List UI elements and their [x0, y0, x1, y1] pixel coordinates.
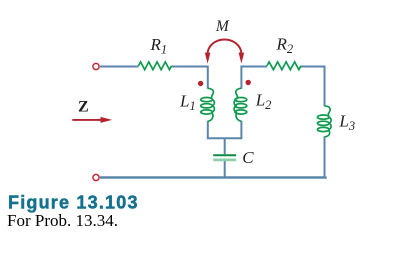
svg-text:Z: Z [78, 99, 89, 116]
wire R1 to L1 top corner, down to L1 coil [172, 67, 208, 89]
terminal top-left [93, 63, 99, 69]
inductor L2 coil [234, 88, 247, 121]
dot L1 (coupling polarity) [198, 81, 203, 86]
wire capacitor bottom plate to bottom rail [224, 161, 226, 178]
terminal bottom-left [93, 174, 99, 180]
capacitor C top plate [213, 154, 236, 156]
wire L1 bottom to junction bar [207, 121, 209, 138]
wire L2 top corner to R2 [241, 67, 267, 89]
svg-text:For Prob. 13.34.: For Prob. 13.34. [7, 211, 118, 230]
wire L2 bottom to junction bar [240, 121, 242, 138]
resistor R2 [267, 62, 301, 70]
junction bar under L1 L2 [207, 137, 243, 139]
wire top-left: terminal to R1 [100, 66, 139, 68]
wire L3 bottom to bottom-right corner [324, 137, 326, 178]
mutual coupling arc M with arrowheads [208, 40, 242, 54]
wire junction bar to capacitor top plate [224, 138, 226, 154]
svg-text:Figure 13.103: Figure 13.103 [8, 193, 139, 213]
inductor L3 coil [317, 106, 331, 137]
capacitor C bottom plate [213, 158, 236, 161]
arrow for input impedance Z [72, 119, 103, 121]
resistor R1 [139, 62, 172, 70]
wire R2 to top-right corner, down to L3 [301, 67, 325, 107]
bottom rail wire [100, 177, 326, 178]
svg-text:M: M [215, 18, 230, 35]
inductor L1 coil [201, 88, 215, 121]
dot L2 (coupling polarity) [246, 80, 251, 85]
svg-text:C: C [242, 148, 254, 167]
